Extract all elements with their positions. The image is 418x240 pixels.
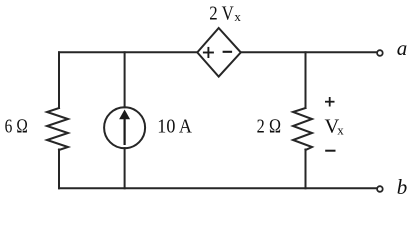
svg-text:2 V: 2 V bbox=[209, 3, 234, 25]
svg-text:2 Ω: 2 Ω bbox=[257, 116, 282, 138]
svg-text:b: b bbox=[397, 175, 408, 199]
resistor 2ohm zigzag bbox=[293, 108, 312, 150]
dependent source U1 diamond bbox=[197, 28, 241, 77]
wire top-right segment bbox=[241, 51, 377, 53]
minus sign of Vx polarity bbox=[325, 150, 335, 152]
wire left-bottom lead bbox=[58, 150, 60, 189]
terminal b circle bbox=[377, 186, 383, 192]
current source I1 circle bbox=[104, 107, 145, 148]
resistor 6ohm zigzag bbox=[47, 108, 68, 150]
current source arrow bbox=[119, 110, 130, 146]
wire current-source top lead bbox=[124, 52, 126, 107]
plus sign of Vx polarity bbox=[325, 97, 335, 107]
plus sign inside diamond bbox=[203, 47, 214, 58]
svg-text:6 Ω: 6 Ω bbox=[5, 116, 28, 138]
wire left-top lead bbox=[58, 52, 60, 108]
wire bottom segment bbox=[59, 187, 377, 189]
svg-text:a: a bbox=[397, 36, 408, 60]
wire 2ohm top lead bbox=[305, 52, 307, 108]
wire current-source bottom lead bbox=[124, 148, 126, 188]
wire top-left segment bbox=[59, 51, 197, 53]
svg-text:x: x bbox=[234, 9, 241, 24]
terminal a circle bbox=[377, 50, 383, 56]
svg-text:x: x bbox=[337, 122, 344, 137]
minus sign inside diamond bbox=[223, 51, 233, 53]
svg-text:10 A: 10 A bbox=[157, 116, 192, 138]
wire 2ohm bottom lead bbox=[305, 150, 307, 189]
